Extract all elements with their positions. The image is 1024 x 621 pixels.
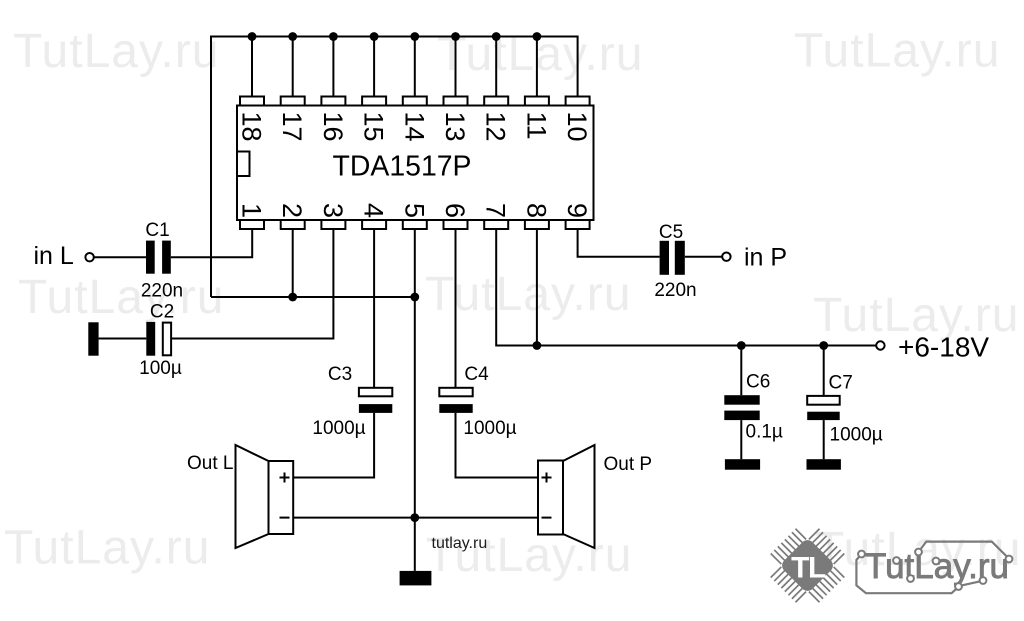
speaker Out L driver [269,461,294,534]
wire bus to pin 18 [251,37,253,97]
svg-text:TutLay.ru: TutLay.ru [794,25,1000,78]
svg-text:C3: C3 [328,364,352,385]
svg-text:+6-18V: +6-18V [898,332,989,363]
ground bar C6 [725,459,760,470]
wire C6 to ground bar [740,420,742,459]
logo via 8 [1006,556,1013,563]
speaker Out P minus sign [542,517,552,519]
svg-text:in L: in L [34,242,74,270]
junction dot bus pin 15 [370,32,379,41]
wire pin 7 to supply rail [496,229,876,346]
pin stub bottom 1 [240,220,264,229]
wire pin 6 to C4 [455,229,457,388]
logo via 5 [907,575,914,582]
pin stub top 12 [484,97,508,106]
svg-text:1000µ: 1000µ [312,418,365,439]
logo trace border top [919,542,1009,559]
capacitor C4 plate filled [439,404,472,413]
svg-text:C4: C4 [464,364,489,385]
capacitor C4 plate open [439,388,472,397]
wire top bus with left and right legs [211,37,578,298]
svg-text:2: 2 [277,203,307,218]
junction dot bus pin 16 [329,32,338,41]
svg-text:12: 12 [481,112,511,142]
junction dot pin 5 net [410,293,419,302]
wire bus to pin 11 [536,37,538,97]
svg-text:TutLay.ru: TutLay.ru [13,25,219,78]
svg-text:1: 1 [237,203,267,218]
svg-text:10: 10 [562,112,592,142]
svg-text:18: 18 [237,112,267,142]
wire pin 5 down to speaker minus line and ground [414,229,416,571]
speaker Out L plus sign [280,473,290,483]
capacitor C3 plate filled [359,404,392,413]
capacitor C2 plate filled [146,322,155,356]
speaker Out P cone [563,445,595,548]
terminal in L [85,253,93,261]
capacitor C2 plate open [163,323,171,356]
ground bar at C2 [88,322,98,355]
svg-text:13: 13 [440,112,470,142]
svg-text:14: 14 [399,112,429,142]
wire net from bus leg to pins 2 and 5 [211,296,415,298]
svg-text:TDA1517P: TDA1517P [333,151,472,183]
wire C4 to speaker P plus [456,413,539,478]
junction dot pin 2 net [288,293,297,302]
pin stub top 16 [321,97,345,106]
wire rail to C7 [823,346,825,396]
wire speaker minus bus [293,517,538,519]
pin stub bottom 6 [444,220,468,229]
svg-text:1000µ: 1000µ [830,425,883,446]
logo via 4 [933,558,940,565]
svg-text:TL: TL [791,552,826,585]
junction dot pin 8 rail [533,341,542,350]
svg-text:8: 8 [521,203,551,218]
capacitor C5 plate left [660,241,669,275]
capacitor C1 plate right [162,241,171,274]
svg-text:in P: in P [744,244,787,272]
speaker Out P driver [538,461,563,535]
pin stub bottom 3 [321,220,345,229]
pin stub bottom 9 [566,220,590,229]
svg-text:C6: C6 [746,372,770,393]
pin stub bottom 8 [525,220,549,229]
pin stub top 13 [444,97,468,106]
capacitor C7 plate filled [807,412,840,420]
wire rail to C6 [740,346,742,396]
terminal +6-18V [876,341,884,349]
wire in L terminal to C1 [94,256,146,258]
svg-text:TutLay.ru: TutLay.ru [4,522,210,575]
logo via 3 [915,549,922,556]
pin stub top 10 [566,97,590,106]
wire bus to pin 15 [373,37,375,97]
wire C2 to pin 3 [171,229,333,339]
capacitor C5 plate right [675,241,685,275]
junction dot bus pin 17 [288,32,297,41]
pin stub bottom 5 [403,220,427,229]
ground bar C7 [807,459,841,470]
capacitor C6 plate bottom [724,411,759,421]
logo via 1 [858,551,865,558]
wire C7 to ground bar [823,420,825,459]
svg-text:7: 7 [481,203,511,218]
wire C1 to pin 1 [171,229,252,257]
junction dot bus pin 13 [451,32,460,41]
pin stub bottom 4 [362,220,386,229]
svg-text:C5: C5 [659,222,683,243]
logo trace border right link [960,581,983,586]
svg-text:3: 3 [318,203,348,218]
svg-text:11: 11 [521,112,551,140]
logo via 7 [980,577,987,584]
pin stub top 11 [525,97,549,106]
junction dot bus pin 18 [248,32,257,41]
svg-text:16: 16 [318,112,348,142]
capacitor C3 plate open [359,388,392,397]
capacitor C7 plate open [807,396,840,405]
op-amp IC U1 TDA1517P body [237,106,594,221]
svg-text:100µ: 100µ [139,358,182,379]
svg-text:9: 9 [562,203,592,218]
pin stub top 14 [403,97,427,106]
svg-text:5: 5 [399,203,429,218]
junction dot C6 rail [737,341,746,350]
logo chip icon [759,517,857,615]
speaker Out L cone [236,445,269,548]
wire pin 8 to rail [536,229,538,346]
wire bus to pin 16 [332,37,334,97]
speaker Out L minus sign [280,517,290,519]
IC pin-1 notch [237,152,250,177]
wire pin 2 down [292,229,294,297]
terminal in P [722,253,730,261]
capacitor C6 plate top [724,395,759,405]
ground bar bottom [400,571,432,586]
wire bus to pin 13 [455,37,457,97]
speaker Out P plus sign [542,473,552,483]
svg-text:C1: C1 [145,220,169,241]
wire C5 to in P terminal [685,256,722,258]
junction dot speaker minus [410,513,419,522]
pin stub top 18 [240,97,264,106]
svg-text:C7: C7 [829,373,853,394]
capacitor C1 plate left [146,241,155,274]
svg-text:6: 6 [440,203,470,218]
wire bus to pin 12 [495,37,497,97]
svg-text:Out P: Out P [604,454,653,475]
junction dot bus pin 14 [410,32,419,41]
svg-text:tutlay.ru: tutlay.ru [432,535,488,552]
wire bus to pin 14 [414,37,416,97]
wire pin 4 to C3 [373,229,375,388]
svg-text:TutLay.ru: TutLay.ru [18,271,224,324]
svg-text:15: 15 [359,112,389,142]
junction dot C7 rail [819,341,828,350]
svg-text:C2: C2 [150,302,174,323]
junction dot bus pin 12 [492,32,501,41]
wire ground bar to C2 [99,338,147,340]
logo via 2 [893,557,900,564]
svg-text:0.1µ: 0.1µ [746,422,783,443]
logo trace border left [856,555,958,594]
svg-text:220n: 220n [654,280,696,301]
svg-text:17: 17 [277,112,307,142]
pin stub top 17 [281,97,305,106]
junction dot bus pin 11 [533,32,542,41]
pin stub bottom 7 [484,220,508,229]
svg-text:4: 4 [359,203,389,218]
pin stub top 15 [362,97,386,106]
wire pin 9 to C5 [578,229,660,257]
wire C3 to speaker L plus [293,413,374,478]
wire bus to pin 17 [292,37,294,97]
svg-text:1000µ: 1000µ [463,418,516,439]
svg-text:220n: 220n [141,281,183,302]
svg-text:Out L: Out L [187,453,233,474]
pin stub bottom 2 [281,220,305,229]
logo via 6 [955,583,962,590]
